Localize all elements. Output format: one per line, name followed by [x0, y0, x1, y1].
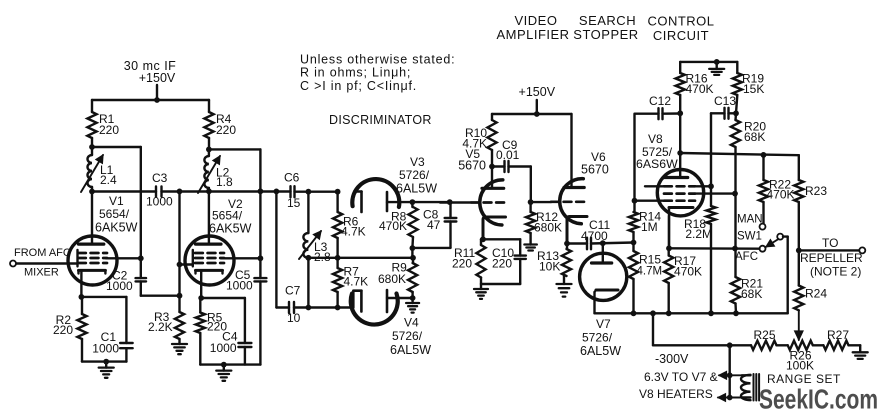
- svg-text:2.4: 2.4: [100, 173, 117, 187]
- svg-text:SeekIC.com: SeekIC.com: [759, 384, 878, 415]
- svg-text:C6: C6: [284, 171, 300, 185]
- svg-text:4.7K: 4.7K: [344, 275, 369, 289]
- svg-text:5726/: 5726/: [582, 331, 613, 345]
- svg-text:1000: 1000: [92, 342, 119, 356]
- svg-text:6AL5W: 6AL5W: [390, 343, 431, 357]
- svg-text:470K: 470K: [767, 188, 795, 202]
- svg-text:Unless otherwise stated:: Unless otherwise stated:: [300, 53, 455, 67]
- svg-text:220: 220: [99, 123, 119, 137]
- svg-text:C12: C12: [649, 94, 671, 108]
- svg-text:1000: 1000: [226, 279, 253, 293]
- svg-text:STOPPER: STOPPER: [573, 27, 638, 42]
- svg-text:V8: V8: [648, 132, 663, 146]
- svg-text:1000: 1000: [210, 341, 237, 355]
- svg-text:R15: R15: [639, 253, 661, 267]
- svg-text:R27: R27: [827, 328, 849, 342]
- svg-text:C7: C7: [285, 284, 301, 298]
- svg-text:680K: 680K: [534, 221, 562, 235]
- svg-text:+150V: +150V: [519, 85, 556, 99]
- svg-text:R in ohms; Linμh;: R in ohms; Linμh;: [300, 66, 411, 80]
- svg-text:470K: 470K: [686, 82, 714, 96]
- svg-text:2.2K: 2.2K: [148, 320, 173, 334]
- svg-text:15K: 15K: [743, 82, 764, 96]
- svg-text:C >I in pf; C<Iinμf.: C >I in pf; C<Iinμf.: [300, 79, 417, 93]
- svg-text:4.7K: 4.7K: [341, 225, 366, 239]
- svg-text:MIXER: MIXER: [24, 267, 59, 279]
- svg-text:AMPLIFIER: AMPLIFIER: [496, 27, 569, 42]
- svg-text:5670: 5670: [581, 163, 609, 177]
- svg-text:68K: 68K: [744, 130, 765, 144]
- svg-text:1.8: 1.8: [216, 175, 233, 189]
- svg-text:1M: 1M: [641, 220, 658, 234]
- svg-text:680K: 680K: [378, 272, 406, 286]
- svg-text:SW1: SW1: [737, 231, 762, 243]
- svg-text:(NOTE 2): (NOTE 2): [810, 265, 861, 279]
- svg-text:R23: R23: [805, 184, 827, 198]
- svg-text:V1: V1: [109, 194, 124, 208]
- svg-text:47: 47: [427, 218, 441, 232]
- svg-text:TO: TO: [822, 236, 838, 250]
- svg-text:REPELLER: REPELLER: [800, 251, 863, 265]
- svg-text:4.7M: 4.7M: [637, 266, 663, 278]
- svg-text:470K: 470K: [379, 219, 407, 233]
- svg-text:220: 220: [53, 323, 73, 337]
- svg-text:V7: V7: [596, 317, 611, 331]
- svg-text:C13: C13: [714, 94, 736, 108]
- svg-text:220: 220: [216, 123, 236, 137]
- svg-text:5654/: 5654/: [99, 207, 130, 221]
- svg-text:2.2M: 2.2M: [685, 227, 712, 241]
- svg-text:6AK5W: 6AK5W: [209, 222, 252, 236]
- svg-text:V3: V3: [410, 155, 425, 169]
- svg-text:SEARCH: SEARCH: [579, 13, 636, 28]
- svg-text:68K: 68K: [741, 287, 762, 301]
- svg-text:1000: 1000: [146, 195, 173, 209]
- svg-text:R24: R24: [805, 287, 827, 301]
- svg-text:220: 220: [452, 257, 472, 271]
- svg-text:6.3V TO V7 &: 6.3V TO V7 &: [644, 370, 718, 384]
- svg-text:100K: 100K: [786, 359, 814, 373]
- svg-text:1000: 1000: [106, 279, 133, 293]
- svg-text:V8 HEATERS: V8 HEATERS: [639, 387, 713, 401]
- svg-text:15: 15: [287, 196, 301, 210]
- svg-text:V4: V4: [404, 316, 419, 330]
- svg-text:10: 10: [287, 311, 301, 325]
- svg-text:MAN: MAN: [737, 214, 763, 226]
- svg-text:6AL5W: 6AL5W: [580, 344, 621, 358]
- svg-text:6AK5W: 6AK5W: [95, 221, 138, 235]
- svg-text:FROM AFC: FROM AFC: [14, 247, 71, 259]
- svg-text:CIRCUIT: CIRCUIT: [653, 28, 709, 43]
- svg-text:5726/: 5726/: [392, 329, 423, 343]
- svg-text:+150V: +150V: [139, 71, 176, 85]
- svg-text:0.01: 0.01: [496, 148, 520, 162]
- svg-text:6AL5W: 6AL5W: [396, 182, 437, 196]
- svg-text:5654/: 5654/: [212, 209, 243, 223]
- svg-text:10K: 10K: [539, 260, 560, 274]
- svg-text:5726/: 5726/: [399, 168, 430, 182]
- svg-text:220: 220: [492, 257, 512, 271]
- svg-text:-300V: -300V: [655, 352, 689, 366]
- svg-text:6AS6W: 6AS6W: [636, 157, 678, 171]
- svg-text:CONTROL: CONTROL: [647, 14, 714, 29]
- svg-text:AFC: AFC: [735, 251, 758, 263]
- svg-text:C3: C3: [152, 171, 168, 185]
- svg-text:VIDEO: VIDEO: [515, 13, 558, 28]
- svg-text:470K: 470K: [674, 265, 702, 279]
- svg-text:R25: R25: [754, 328, 776, 342]
- svg-text:DISCRIMINATOR: DISCRIMINATOR: [329, 113, 432, 127]
- svg-text:5670: 5670: [458, 159, 486, 173]
